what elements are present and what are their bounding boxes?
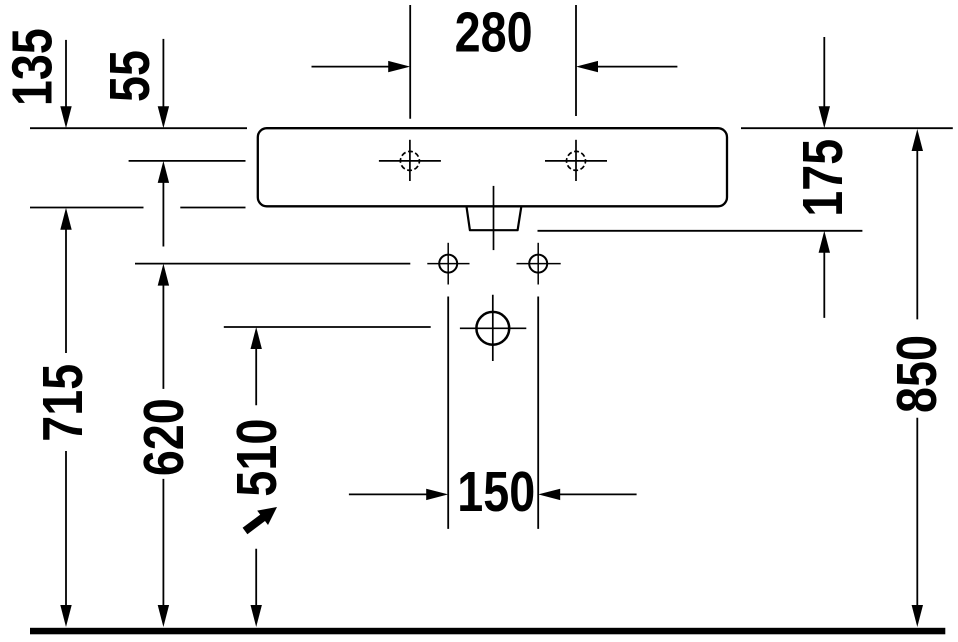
dimension 620 lower line with down arrow at floor <box>158 479 169 627</box>
dimension 620 up arrow at mounting hole level <box>158 264 169 389</box>
reference line: basin top level, right <box>741 127 953 129</box>
dimension 175 up arrow with tail <box>819 231 830 318</box>
drain fitting (trapezoid below basin) <box>467 207 522 230</box>
dimension text 510 <box>226 419 289 497</box>
dimension text 150 <box>457 461 535 524</box>
dimension 175 line with down arrow <box>819 37 830 128</box>
dimension 150 extension line right <box>537 297 539 529</box>
svg-text:715: 715 <box>32 364 95 442</box>
faucet hole left crosshair <box>379 140 441 181</box>
mounting hole left (small circle) <box>439 255 457 273</box>
floor line (thick) <box>30 628 945 635</box>
dimension 150 arrow left <box>349 489 448 500</box>
drain hole vertical crosshair <box>492 295 494 361</box>
drain hole horizontal crosshair <box>460 327 526 329</box>
dimension text 175 <box>791 139 854 217</box>
drain hole (large circle) <box>476 312 509 345</box>
washbasin outline (side profile) <box>258 128 727 206</box>
faucet hole left (dashed circle) <box>400 151 419 170</box>
mounting hole left vertical crosshair <box>447 243 449 285</box>
dimension text 135 <box>1 28 64 106</box>
direction arrow (diagonal pointer) <box>243 507 277 534</box>
mounting hole right vertical crosshair <box>537 243 539 285</box>
dimension text 280 <box>455 1 533 64</box>
reference line: faucet hole level <box>129 160 246 162</box>
svg-text:280: 280 <box>455 1 533 64</box>
reference line: basin underside, left (segment 1) <box>30 207 144 209</box>
reference line: mounting holes level through right hole <box>517 263 561 265</box>
reference line: basin top level, left <box>30 127 247 129</box>
dimension 280 arrow left <box>312 61 411 72</box>
svg-text:55: 55 <box>99 50 162 102</box>
drain centerline (vertical axis through trapezoid) <box>493 186 495 250</box>
reference line: drain hole level <box>224 326 431 328</box>
faucet hole right (dashed circle) <box>567 151 586 170</box>
dimension 150 extension line left <box>447 297 449 529</box>
svg-text:850: 850 <box>886 335 949 413</box>
dimension 150 arrow right <box>538 489 636 500</box>
reference line: basin underside, left (segment 2) <box>180 207 245 209</box>
mounting hole right (small circle) <box>529 255 547 273</box>
dimension text 715 <box>32 364 95 442</box>
dimension 280 extension line right <box>575 5 577 116</box>
reference line: mounting holes level through left hole <box>427 263 469 265</box>
dimension 280 extension line left <box>409 5 411 119</box>
reference line: drain bottom level, right <box>538 230 863 232</box>
svg-text:135: 135 <box>1 28 64 106</box>
dimension 510 lower line with down arrow at floor <box>251 549 262 627</box>
dimension 510 up arrow at drain hole level <box>251 327 262 405</box>
dimension 850 up arrow at basin top level <box>912 129 923 319</box>
svg-text:175: 175 <box>791 139 854 217</box>
dimension text 55 <box>99 50 162 102</box>
dimension 715 up arrow at basin underside <box>60 208 71 353</box>
svg-text:150: 150 <box>457 461 535 524</box>
svg-text:510: 510 <box>226 419 289 497</box>
faucet hole right crosshair <box>545 140 607 181</box>
dimension 55 line with down arrow <box>158 39 169 128</box>
svg-text:620: 620 <box>132 398 195 476</box>
reference line: mounting holes level <box>135 263 410 265</box>
dimension 850 lower line with down arrow at floor <box>912 418 923 627</box>
dimension 55 up arrow with tail <box>158 161 169 247</box>
dimension 135 line with down arrow <box>60 40 71 128</box>
dimension text 620 <box>132 398 195 476</box>
dimension 280 arrow right <box>576 61 677 72</box>
dimension 715 lower line with down arrow at floor <box>60 451 71 627</box>
dimension text 850 <box>886 335 949 413</box>
